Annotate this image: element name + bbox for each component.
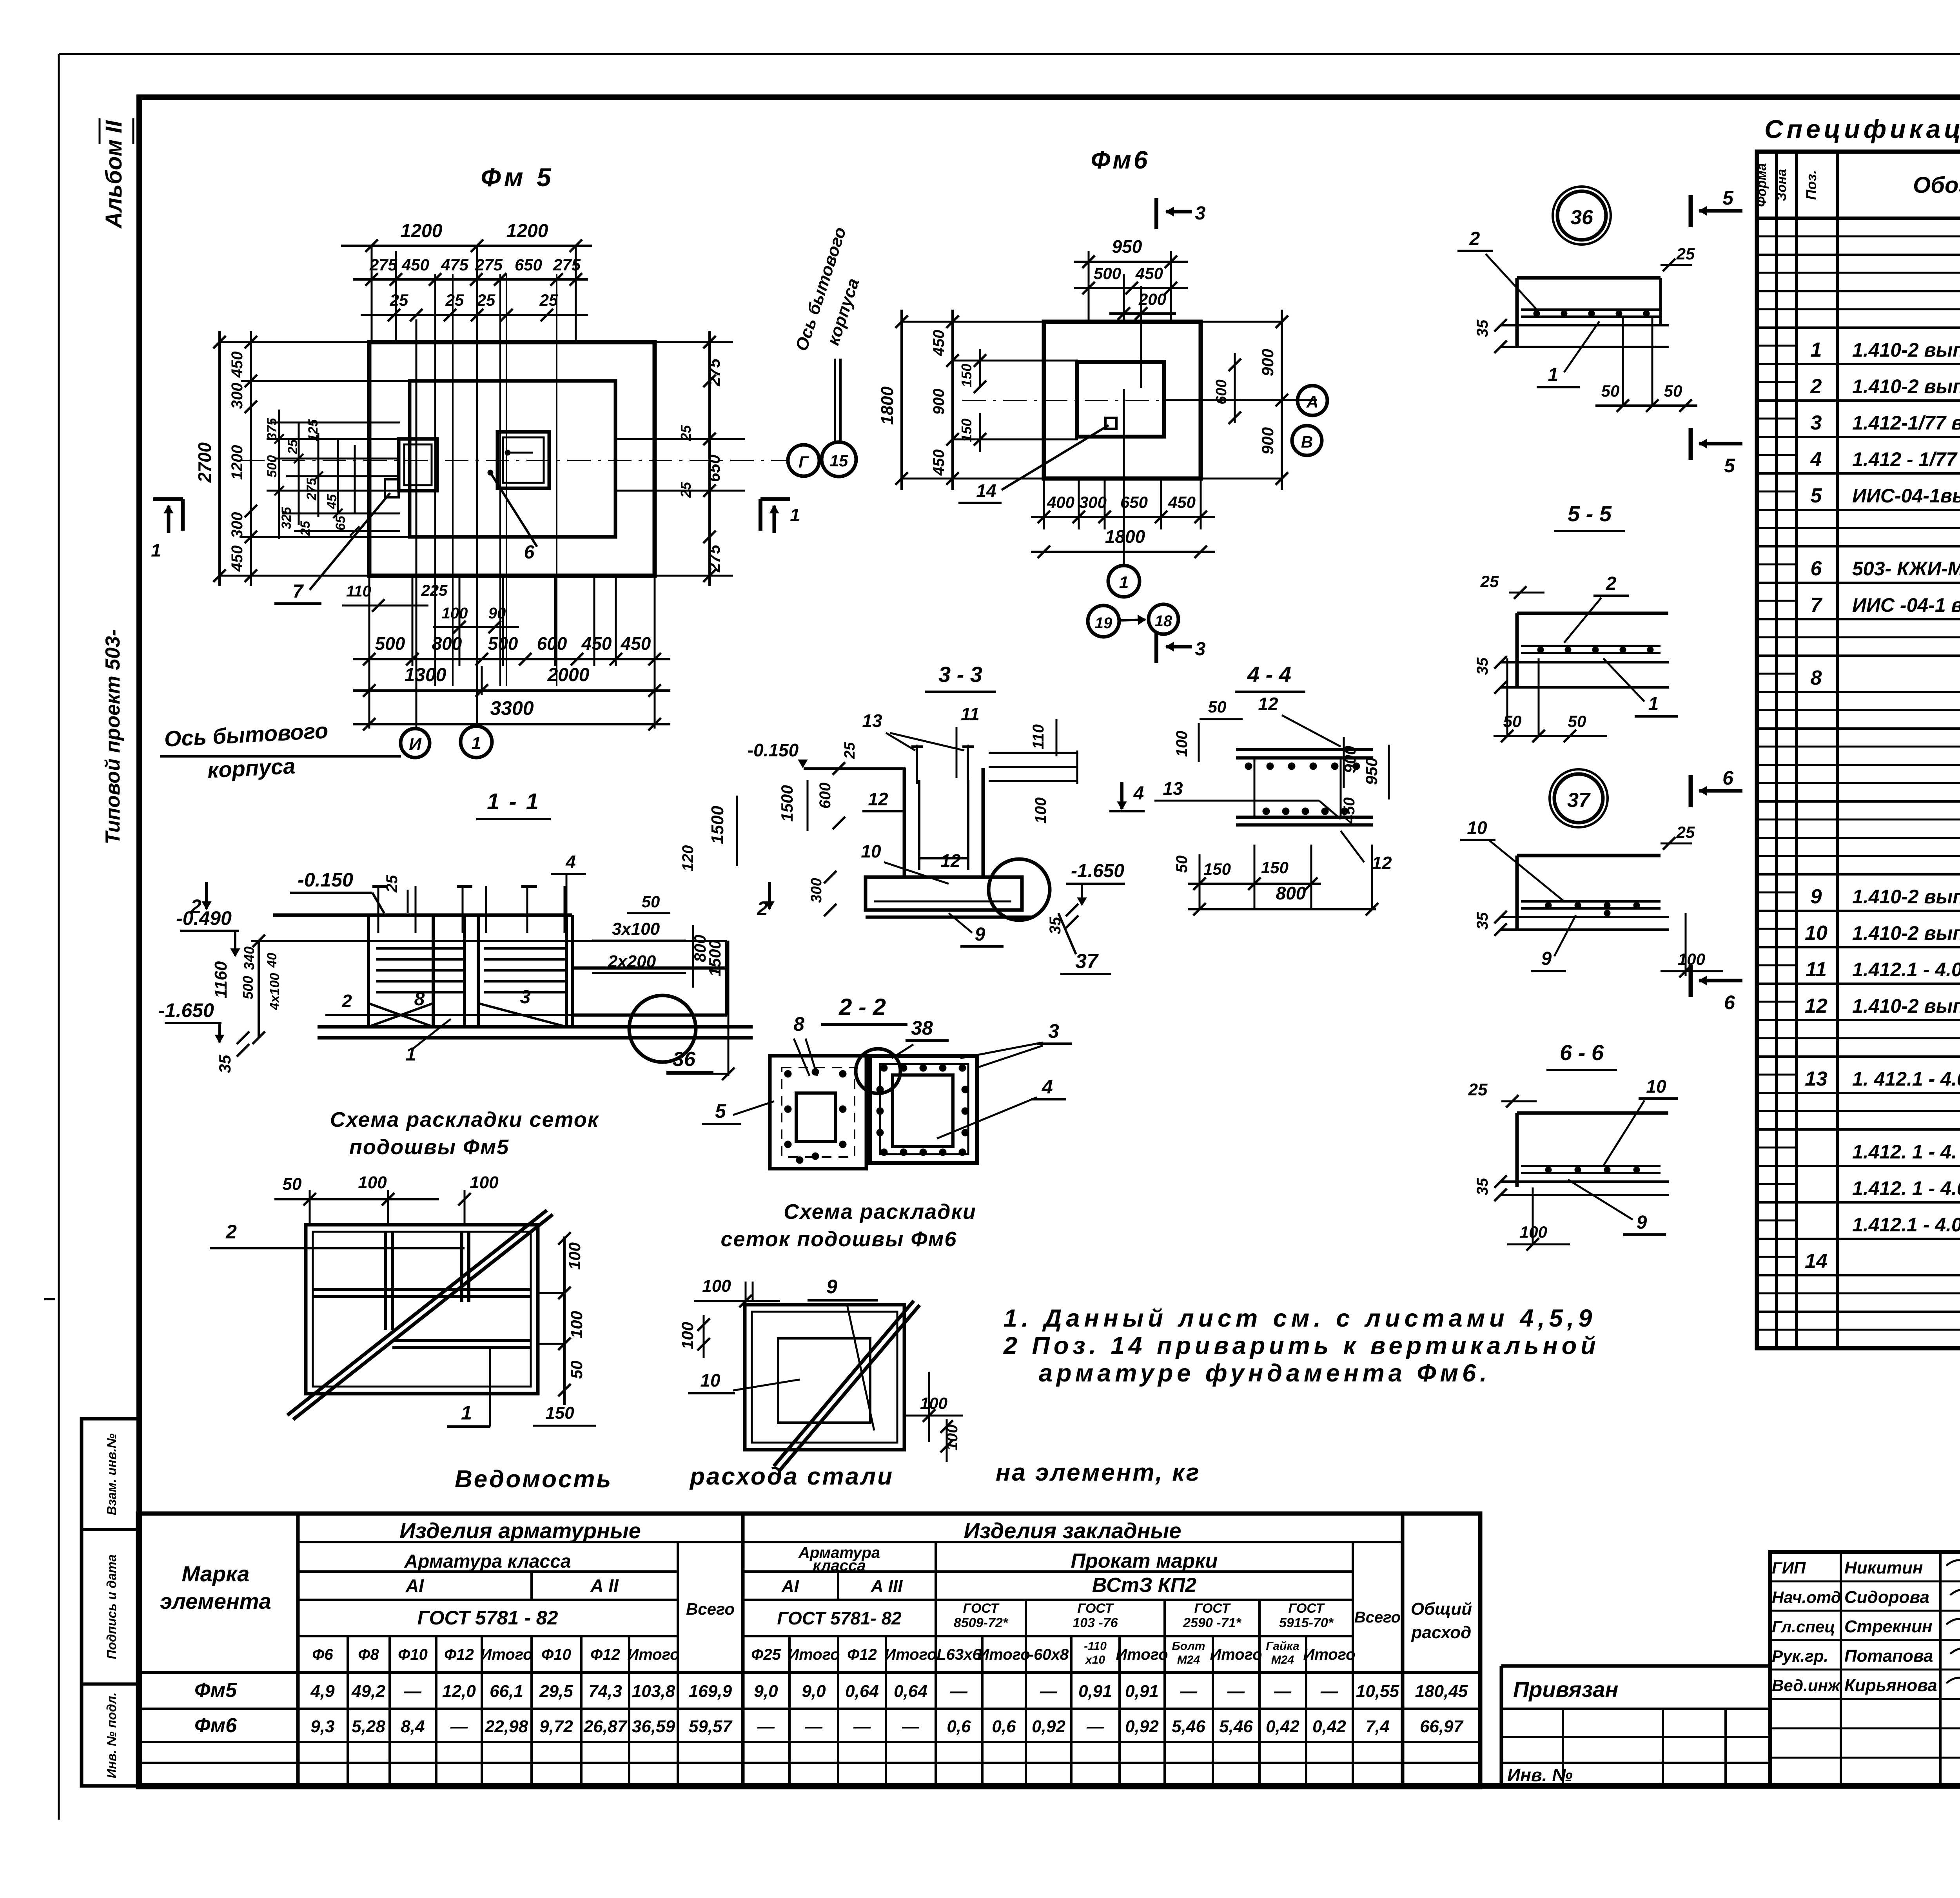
svg-text:450: 450 xyxy=(621,633,651,654)
svg-text:Стрекнин: Стрекнин xyxy=(1844,1617,1933,1636)
svg-text:М24: М24 xyxy=(1177,1653,1200,1666)
svg-text:50: 50 xyxy=(1601,382,1620,400)
svg-text:25: 25 xyxy=(539,291,558,309)
svg-text:Гайка: Гайка xyxy=(1266,1640,1299,1653)
svg-text:11: 11 xyxy=(961,704,980,724)
svg-text:—: — xyxy=(1040,1682,1058,1701)
svg-text:1.412-1/77 вып. 3: 1.412-1/77 вып. 3 xyxy=(1852,412,1960,434)
svg-text:Поз.: Поз. xyxy=(1803,170,1819,200)
svg-text:1800: 1800 xyxy=(1105,526,1145,547)
svg-text:И: И xyxy=(409,735,422,754)
svg-text:4: 4 xyxy=(1133,783,1144,804)
svg-text:—: — xyxy=(805,1717,823,1736)
svg-text:35: 35 xyxy=(1474,1178,1491,1195)
svg-text:ГОСТ: ГОСТ xyxy=(1194,1601,1231,1616)
svg-text:Ф12: Ф12 xyxy=(847,1646,877,1663)
svg-text:—: — xyxy=(450,1717,468,1736)
svg-text:4х100: 4х100 xyxy=(267,973,282,1011)
svg-text:Рук.гр.: Рук.гр. xyxy=(1772,1647,1828,1665)
svg-text:275: 275 xyxy=(705,544,723,573)
svg-text:26,87: 26,87 xyxy=(583,1717,628,1736)
svg-text:1: 1 xyxy=(790,505,800,525)
svg-text:ГОСТ 5781- 82: ГОСТ 5781- 82 xyxy=(777,1608,902,1628)
svg-text:36,59: 36,59 xyxy=(632,1717,675,1736)
svg-text:подошвы Фм5: подошвы Фм5 xyxy=(349,1135,509,1159)
svg-text:25: 25 xyxy=(1676,245,1695,263)
svg-text:9,72: 9,72 xyxy=(539,1717,573,1736)
svg-text:Подпись и дата: Подпись и дата xyxy=(104,1554,119,1659)
svg-text:сеток подошвы Фм6: сеток подошвы Фм6 xyxy=(721,1227,957,1251)
svg-text:5: 5 xyxy=(1722,187,1734,209)
svg-text:Гл.спец: Гл.спец xyxy=(1772,1617,1835,1636)
svg-text:14: 14 xyxy=(1805,1250,1828,1273)
svg-text:Спецификация фундаментов Фм5: Спецификация фундаментов Фм5, Фм6 xyxy=(1764,114,1960,143)
svg-text:2: 2 xyxy=(341,991,352,1011)
svg-text:4: 4 xyxy=(1042,1076,1053,1098)
svg-text:1: 1 xyxy=(1811,339,1822,361)
svg-text:9,3: 9,3 xyxy=(310,1717,334,1736)
svg-text:50: 50 xyxy=(1568,712,1586,731)
svg-text:5,46: 5,46 xyxy=(1172,1717,1205,1736)
svg-text:19: 19 xyxy=(1095,615,1112,632)
svg-text:Прокат марки: Прокат марки xyxy=(1071,1550,1218,1572)
svg-text:600: 600 xyxy=(537,633,567,654)
svg-text:Инв. №: Инв. № xyxy=(1507,1765,1573,1785)
svg-text:100: 100 xyxy=(567,1311,586,1338)
svg-text:45: 45 xyxy=(325,494,339,509)
svg-text:50: 50 xyxy=(567,1361,586,1379)
svg-text:ВСтЗ КП2: ВСтЗ КП2 xyxy=(1092,1574,1196,1597)
svg-text:Итого: Итого xyxy=(1116,1646,1168,1663)
svg-text:50: 50 xyxy=(1208,698,1227,716)
svg-text:ГИП: ГИП xyxy=(1772,1559,1806,1577)
svg-text:12: 12 xyxy=(940,850,961,871)
svg-text:Марка: Марка xyxy=(182,1561,250,1586)
svg-text:Всего: Всего xyxy=(686,1600,735,1618)
svg-text:1500: 1500 xyxy=(706,940,724,976)
svg-text:2: 2 xyxy=(1469,228,1480,249)
svg-text:25: 25 xyxy=(477,291,495,309)
svg-text:-0.490: -0.490 xyxy=(176,907,232,929)
svg-text:—: — xyxy=(1274,1682,1292,1701)
svg-text:0,92: 0,92 xyxy=(1032,1717,1065,1736)
svg-text:0,42: 0,42 xyxy=(1312,1717,1346,1736)
svg-text:8: 8 xyxy=(793,1013,804,1035)
svg-text:—: — xyxy=(950,1682,968,1701)
svg-text:3: 3 xyxy=(1048,1020,1059,1042)
svg-text:200: 200 xyxy=(1138,290,1166,308)
svg-text:1.412.1 - 4.050: 1.412.1 - 4.050 xyxy=(1852,959,1960,981)
svg-text:25: 25 xyxy=(1480,572,1499,591)
svg-text:Схема раскладки: Схема раскладки xyxy=(784,1200,976,1224)
svg-text:10: 10 xyxy=(861,841,881,861)
svg-text:38: 38 xyxy=(911,1017,933,1039)
svg-text:10: 10 xyxy=(1646,1076,1666,1097)
svg-text:А III: А III xyxy=(871,1577,903,1596)
svg-text:ГОСТ: ГОСТ xyxy=(1289,1601,1325,1616)
svg-text:22,98: 22,98 xyxy=(485,1717,528,1736)
svg-text:900: 900 xyxy=(1258,427,1277,455)
svg-text:1200: 1200 xyxy=(506,221,548,241)
svg-text:х10: х10 xyxy=(1085,1653,1105,1666)
svg-text:2700: 2700 xyxy=(194,442,215,483)
svg-text:1.410-2 вып. 1: 1.410-2 вып. 1 xyxy=(1852,886,1960,908)
svg-text:25: 25 xyxy=(383,875,401,893)
svg-text:800: 800 xyxy=(432,633,462,654)
svg-text:50: 50 xyxy=(642,892,660,911)
svg-text:65: 65 xyxy=(333,515,348,531)
svg-text:2000: 2000 xyxy=(547,665,590,685)
svg-text:13: 13 xyxy=(1163,778,1183,799)
svg-text:1.412. 1 - 4. 080: 1.412. 1 - 4. 080 xyxy=(1852,1141,1960,1163)
svg-text:150: 150 xyxy=(545,1403,574,1423)
svg-text:3300: 3300 xyxy=(490,697,534,719)
svg-text:475: 475 xyxy=(441,256,469,274)
svg-text:Итого: Итого xyxy=(978,1646,1030,1663)
svg-text:Фм6: Фм6 xyxy=(1091,146,1150,174)
svg-text:90: 90 xyxy=(488,605,506,622)
svg-text:1500: 1500 xyxy=(708,806,727,844)
svg-text:150: 150 xyxy=(1261,858,1289,877)
svg-text:4: 4 xyxy=(1810,448,1822,471)
svg-text:1: 1 xyxy=(1119,573,1129,592)
svg-text:1: 1 xyxy=(472,734,481,753)
svg-text:100: 100 xyxy=(442,605,468,622)
svg-text:0,91: 0,91 xyxy=(1078,1682,1112,1701)
svg-text:9,0: 9,0 xyxy=(754,1682,778,1701)
svg-text:3 - 3: 3 - 3 xyxy=(938,662,982,687)
svg-text:—: — xyxy=(1086,1717,1104,1736)
svg-text:1: 1 xyxy=(461,1402,472,1424)
svg-text:300: 300 xyxy=(808,878,825,903)
svg-text:6: 6 xyxy=(1722,767,1734,789)
svg-text:37: 37 xyxy=(1075,950,1099,973)
svg-text:1500: 1500 xyxy=(778,785,796,821)
svg-text:400: 400 xyxy=(1047,493,1074,511)
svg-text:Ось бытового: Ось бытового xyxy=(163,718,328,751)
svg-text:-1.650: -1.650 xyxy=(158,999,214,1021)
svg-text:Фм5: Фм5 xyxy=(194,1679,237,1702)
svg-text:1: 1 xyxy=(1648,694,1659,714)
svg-text:0,64: 0,64 xyxy=(894,1682,927,1701)
svg-text:340: 340 xyxy=(241,946,257,970)
svg-text:6 - 6: 6 - 6 xyxy=(1560,1040,1604,1065)
svg-text:275: 275 xyxy=(705,358,723,386)
svg-text:2х200: 2х200 xyxy=(608,952,656,971)
svg-text:класса: класса xyxy=(813,1557,866,1574)
svg-text:275: 275 xyxy=(553,256,581,274)
svg-text:500: 500 xyxy=(375,633,405,654)
svg-text:ИИС -04-1 вып.6: ИИС -04-1 вып.6 xyxy=(1852,594,1960,616)
svg-text:Взам. инв.№: Взам. инв.№ xyxy=(104,1433,119,1515)
svg-text:Никитин: Никитин xyxy=(1844,1558,1923,1577)
svg-text:на элемент, кг: на элемент, кг xyxy=(996,1459,1201,1486)
svg-text:—: — xyxy=(757,1717,775,1736)
svg-text:7,4: 7,4 xyxy=(1365,1717,1389,1736)
svg-text:66,1: 66,1 xyxy=(490,1682,523,1701)
svg-text:8,4: 8,4 xyxy=(401,1717,425,1736)
svg-text:900: 900 xyxy=(1258,349,1277,376)
svg-text:—: — xyxy=(853,1717,871,1736)
svg-text:450: 450 xyxy=(1168,493,1196,511)
svg-text:8509-72*: 8509-72* xyxy=(954,1615,1009,1630)
svg-text:3: 3 xyxy=(1195,639,1206,660)
svg-text:7: 7 xyxy=(293,581,304,602)
svg-text:ИИС-04-1вып.6 Д9-04: ИИС-04-1вып.6 Д9-04 xyxy=(1852,485,1960,507)
svg-text:100: 100 xyxy=(702,1276,731,1296)
svg-text:1200: 1200 xyxy=(229,445,246,480)
svg-text:14: 14 xyxy=(976,480,996,501)
svg-text:Итого: Итого xyxy=(1303,1646,1355,1663)
svg-text:2590 -71*: 2590 -71* xyxy=(1183,1615,1241,1630)
svg-text:450: 450 xyxy=(581,633,612,654)
svg-text:13: 13 xyxy=(862,711,882,731)
svg-text:3х100: 3х100 xyxy=(612,919,660,939)
svg-text:2 - 2: 2 - 2 xyxy=(838,994,886,1020)
svg-text:120: 120 xyxy=(679,845,697,872)
svg-text:650: 650 xyxy=(515,256,542,274)
svg-text:9: 9 xyxy=(826,1276,837,1298)
svg-text:Изделия закладные: Изделия закладные xyxy=(964,1518,1181,1543)
svg-text:1.412. 1 - 4.080-01: 1.412. 1 - 4.080-01 xyxy=(1852,1177,1960,1199)
svg-text:950: 950 xyxy=(1362,758,1381,785)
svg-text:-0.150: -0.150 xyxy=(298,869,353,891)
svg-text:А II: А II xyxy=(590,1575,619,1596)
svg-text:300: 300 xyxy=(1079,493,1107,511)
svg-text:—: — xyxy=(1320,1682,1338,1701)
svg-text:Сидорова: Сидорова xyxy=(1844,1588,1929,1607)
svg-text:Болт: Болт xyxy=(1172,1640,1205,1653)
svg-text:1300: 1300 xyxy=(405,665,446,685)
svg-text:2 Поз. 14 приварить к вер: 2 Поз. 14 приварить к вертикальной xyxy=(1003,1332,1600,1360)
svg-text:4 - 4: 4 - 4 xyxy=(1247,662,1291,687)
svg-text:7: 7 xyxy=(1811,594,1823,616)
svg-text:4,9: 4,9 xyxy=(310,1682,335,1701)
svg-text:150: 150 xyxy=(1203,860,1231,878)
svg-text:275: 275 xyxy=(369,256,397,274)
svg-text:110: 110 xyxy=(346,583,371,600)
svg-text:Всего: Всего xyxy=(1354,1609,1401,1626)
svg-text:59,57: 59,57 xyxy=(689,1717,733,1736)
svg-text:0,91: 0,91 xyxy=(1125,1682,1159,1701)
svg-text:Ф8: Ф8 xyxy=(358,1646,379,1663)
svg-text:1.410-2 вып. 1: 1.410-2 вып. 1 xyxy=(1852,375,1960,397)
svg-text:1.412.1 - 4.080 -02: 1.412.1 - 4.080 -02 xyxy=(1852,1214,1960,1236)
svg-text:500: 500 xyxy=(488,633,518,654)
svg-text:100: 100 xyxy=(1032,798,1049,824)
svg-text:1160: 1160 xyxy=(211,961,230,998)
svg-text:Итого: Итого xyxy=(788,1646,840,1663)
svg-text:1800: 1800 xyxy=(878,386,897,425)
svg-text:25: 25 xyxy=(390,291,408,309)
svg-text:2: 2 xyxy=(757,897,768,919)
svg-text:25: 25 xyxy=(1676,823,1695,841)
svg-text:Ф10: Ф10 xyxy=(541,1646,571,1663)
svg-text:37: 37 xyxy=(1567,789,1591,812)
svg-text:275: 275 xyxy=(475,256,503,274)
svg-text:12: 12 xyxy=(1258,694,1278,714)
svg-text:—: — xyxy=(1180,1682,1198,1701)
svg-text:Фм6: Фм6 xyxy=(194,1714,237,1737)
svg-text:-110: -110 xyxy=(1084,1640,1107,1653)
svg-text:35: 35 xyxy=(1474,912,1491,930)
svg-text:225: 225 xyxy=(421,582,448,599)
svg-text:11: 11 xyxy=(1806,958,1827,981)
svg-text:12,0: 12,0 xyxy=(442,1682,476,1701)
svg-text:8: 8 xyxy=(414,989,425,1010)
svg-text:100: 100 xyxy=(1173,731,1191,757)
svg-text:800: 800 xyxy=(1276,883,1306,903)
svg-text:Ф25: Ф25 xyxy=(751,1646,781,1663)
svg-text:Потапова: Потапова xyxy=(1844,1646,1933,1666)
svg-text:18: 18 xyxy=(1155,613,1172,630)
svg-text:-60х8: -60х8 xyxy=(1029,1646,1069,1663)
svg-text:500: 500 xyxy=(240,976,256,999)
svg-text:1.410-2 вып. 1: 1.410-2 вып. 1 xyxy=(1852,922,1960,944)
svg-text:275: 275 xyxy=(304,478,319,501)
svg-text:25: 25 xyxy=(445,291,464,309)
svg-text:Арматура класса: Арматура класса xyxy=(404,1551,571,1572)
svg-text:503- КЖИ-МН20: 503- КЖИ-МН20 xyxy=(1852,558,1960,580)
svg-text:35: 35 xyxy=(216,1055,234,1073)
svg-text:Итого: Итого xyxy=(1210,1646,1262,1663)
svg-text:1. Данный лист см. с лист: 1. Данный лист см. с листами 4,5,9 xyxy=(1004,1305,1596,1332)
svg-text:2: 2 xyxy=(1606,573,1617,594)
svg-text:Фм 5: Фм 5 xyxy=(481,163,554,192)
svg-text:расхода стали: расхода стали xyxy=(689,1463,894,1490)
svg-text:А: А xyxy=(1306,393,1318,411)
svg-text:13: 13 xyxy=(1805,1068,1828,1090)
svg-text:450: 450 xyxy=(229,546,246,572)
svg-text:36: 36 xyxy=(673,1048,696,1071)
svg-text:1. 412.1 - 4.060: 1. 412.1 - 4.060 xyxy=(1852,1068,1960,1090)
svg-text:50: 50 xyxy=(1664,382,1682,400)
svg-text:Ф6: Ф6 xyxy=(312,1646,333,1663)
svg-text:1: 1 xyxy=(151,540,161,560)
svg-text:корпуса: корпуса xyxy=(207,753,296,783)
svg-text:450: 450 xyxy=(229,352,246,378)
svg-text:Ф10: Ф10 xyxy=(398,1646,428,1663)
svg-text:Изделия арматурные: Изделия арматурные xyxy=(399,1518,641,1543)
svg-text:Ф12: Ф12 xyxy=(444,1646,474,1663)
svg-text:450: 450 xyxy=(401,256,429,274)
svg-text:450: 450 xyxy=(930,330,947,357)
svg-text:25: 25 xyxy=(842,742,858,759)
svg-text:Кирьянова: Кирьянова xyxy=(1844,1676,1937,1695)
svg-text:6: 6 xyxy=(1811,557,1822,580)
svg-text:12: 12 xyxy=(1805,995,1828,1017)
svg-text:35: 35 xyxy=(1474,657,1491,675)
svg-text:5: 5 xyxy=(715,1100,726,1122)
svg-text:10: 10 xyxy=(1467,818,1487,838)
svg-text:29,5: 29,5 xyxy=(539,1682,573,1701)
svg-text:4: 4 xyxy=(565,852,576,872)
svg-text:В: В xyxy=(1301,433,1313,451)
svg-text:Схема раскладки сеток: Схема раскладки сеток xyxy=(330,1108,599,1131)
svg-text:ГОСТ: ГОСТ xyxy=(1078,1601,1114,1616)
svg-text:5,46: 5,46 xyxy=(1219,1717,1253,1736)
svg-text:арматуре фундамента Фм6.: арматуре фундамента Фм6. xyxy=(1039,1360,1491,1387)
svg-text:Альбом II: Альбом II xyxy=(101,120,127,229)
svg-text:8: 8 xyxy=(1811,667,1822,689)
svg-text:100: 100 xyxy=(470,1173,499,1192)
svg-text:450: 450 xyxy=(930,450,947,476)
svg-text:450: 450 xyxy=(1135,264,1163,283)
svg-text:450: 450 xyxy=(1341,798,1358,824)
svg-text:Вед.инж: Вед.инж xyxy=(1772,1676,1841,1695)
svg-text:9,0: 9,0 xyxy=(802,1682,826,1701)
svg-text:элемента: элемента xyxy=(160,1589,271,1613)
svg-text:1 - 1: 1 - 1 xyxy=(487,789,540,814)
svg-text:950: 950 xyxy=(1112,236,1142,257)
svg-text:Г: Г xyxy=(799,453,809,471)
svg-text:500: 500 xyxy=(1094,264,1121,283)
svg-text:15: 15 xyxy=(830,451,848,470)
svg-text:66,97: 66,97 xyxy=(1420,1717,1464,1736)
svg-text:325: 325 xyxy=(279,507,294,529)
svg-text:-1.650: -1.650 xyxy=(1071,861,1124,881)
svg-text:36: 36 xyxy=(1570,206,1593,229)
svg-text:0,42: 0,42 xyxy=(1266,1717,1299,1736)
svg-text:Нач.отд: Нач.отд xyxy=(1772,1588,1841,1606)
svg-text:Зона: Зона xyxy=(1774,169,1789,201)
svg-text:9: 9 xyxy=(975,924,985,945)
svg-text:74,3: 74,3 xyxy=(588,1682,622,1701)
svg-text:Форма: Форма xyxy=(1754,163,1769,207)
svg-text:169,9: 169,9 xyxy=(689,1682,732,1701)
svg-text:12: 12 xyxy=(868,789,888,809)
svg-text:1: 1 xyxy=(1548,364,1559,385)
svg-text:Инв. № подл.: Инв. № подл. xyxy=(104,1692,119,1778)
svg-text:40: 40 xyxy=(265,953,279,968)
svg-text:АI: АI xyxy=(781,1577,799,1596)
svg-text:Обозначение: Обозначение xyxy=(1913,172,1960,198)
svg-text:2: 2 xyxy=(190,896,201,917)
svg-text:Итого: Итого xyxy=(884,1646,936,1663)
svg-text:100: 100 xyxy=(358,1173,387,1192)
svg-text:Типовой проект 503-: Типовой проект 503- xyxy=(102,629,124,845)
svg-text:0,92: 0,92 xyxy=(1125,1717,1159,1736)
svg-text:ГОСТ: ГОСТ xyxy=(963,1601,1000,1616)
svg-text:100: 100 xyxy=(678,1322,697,1349)
svg-text:9: 9 xyxy=(1811,885,1822,908)
svg-text:L63х6: L63х6 xyxy=(936,1646,981,1663)
svg-text:150: 150 xyxy=(958,364,975,387)
svg-text:5: 5 xyxy=(1724,455,1735,477)
svg-text:-0.150: -0.150 xyxy=(748,740,799,760)
svg-text:12: 12 xyxy=(1372,853,1392,873)
svg-text:2: 2 xyxy=(1810,375,1822,398)
svg-text:103,8: 103,8 xyxy=(632,1682,675,1701)
svg-text:5915-70*: 5915-70* xyxy=(1279,1615,1334,1630)
svg-text:103 -76: 103 -76 xyxy=(1073,1615,1118,1630)
svg-text:2: 2 xyxy=(225,1221,237,1243)
svg-text:300: 300 xyxy=(229,383,246,409)
svg-text:Итого: Итого xyxy=(627,1646,679,1663)
svg-text:50: 50 xyxy=(1503,712,1522,731)
svg-text:1.412 - 1/77 вып. 3: 1.412 - 1/77 вып. 3 xyxy=(1852,448,1960,470)
svg-text:1.410-2 вып. 1: 1.410-2 вып. 1 xyxy=(1852,339,1960,361)
svg-text:3: 3 xyxy=(1195,203,1206,224)
svg-text:110: 110 xyxy=(1030,724,1047,749)
svg-text:5 - 5: 5 - 5 xyxy=(1568,501,1612,526)
svg-text:6: 6 xyxy=(524,542,535,563)
svg-text:ГОСТ 5781 - 82: ГОСТ 5781 - 82 xyxy=(417,1607,558,1629)
svg-text:180,45: 180,45 xyxy=(1415,1682,1468,1701)
svg-text:6: 6 xyxy=(1724,992,1735,1013)
svg-text:10: 10 xyxy=(1805,922,1828,944)
svg-text:3: 3 xyxy=(1811,412,1822,434)
